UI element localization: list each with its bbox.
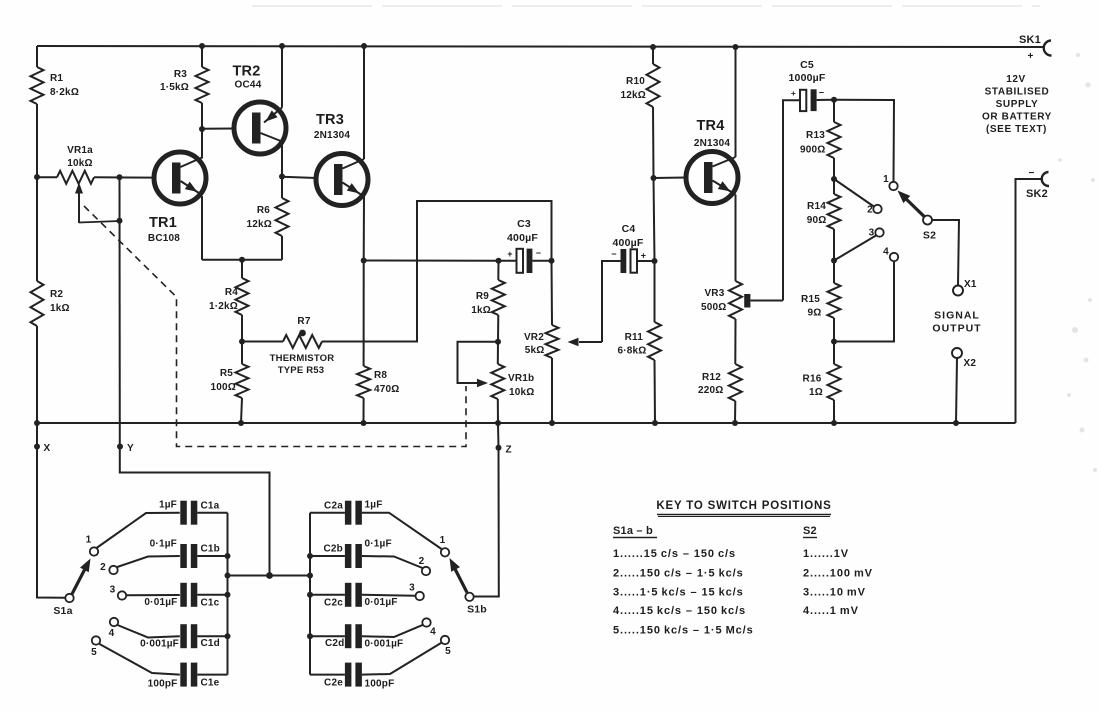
svg-text:900Ω: 900Ω [800, 145, 826, 156]
svg-text:8·2kΩ: 8·2kΩ [50, 87, 79, 98]
svg-text:10kΩ: 10kΩ [509, 387, 535, 398]
switch S2 contact 2 [873, 205, 881, 213]
wire [197, 512, 227, 514]
node junction [650, 44, 656, 50]
switch S1b contact 1 [441, 548, 449, 556]
wire [532, 260, 551, 262]
capacitor C2d [345, 624, 352, 648]
svg-text:OC44: OC44 [235, 80, 262, 91]
svg-text:SK2: SK2 [1026, 188, 1048, 200]
wire [817, 99, 834, 101]
svg-text:90Ω: 90Ω [807, 215, 827, 226]
wire [956, 358, 957, 423]
svg-text:C5: C5 [800, 59, 814, 71]
wire [281, 177, 283, 199]
svg-text:C1e: C1e [201, 678, 220, 689]
node junction [239, 257, 245, 263]
switch S1b contact 5 [441, 636, 449, 644]
socket SK1 [1044, 41, 1052, 56]
svg-text:SIGNAL: SIGNAL [934, 310, 980, 322]
capacitor C1e [180, 663, 187, 687]
svg-text:C4: C4 [622, 223, 636, 235]
node junction [652, 258, 658, 264]
wire [363, 398, 365, 423]
svg-text:OR BATTERY: OR BATTERY [982, 112, 1052, 123]
node junction [34, 174, 40, 180]
svg-text:C1c: C1c [201, 598, 220, 609]
wire [1058, 53, 1097, 472]
svg-text:C2e: C2e [324, 678, 343, 689]
svg-text:R2: R2 [50, 289, 63, 300]
svg-text:R12: R12 [702, 372, 721, 383]
node junction [495, 339, 501, 345]
node X [34, 444, 40, 450]
svg-text:R10: R10 [626, 76, 645, 87]
svg-text:2: 2 [100, 562, 106, 573]
resistor R11 [648, 322, 661, 360]
wire [197, 674, 227, 676]
node 12V supply rail (top) [37, 46, 1044, 47]
svg-text:VR2: VR2 [524, 332, 544, 343]
svg-text:R5: R5 [220, 368, 233, 379]
svg-text:1......1V: 1......1V [803, 548, 849, 560]
capacitor C1b [180, 544, 187, 568]
wire [833, 100, 835, 122]
svg-text:Y: Y [127, 443, 134, 454]
wire [362, 513, 442, 549]
capacitor C2b [345, 544, 352, 568]
wire [833, 318, 835, 342]
wire [36, 46, 38, 67]
wire [281, 236, 283, 260]
resistor R15 [828, 283, 841, 318]
svg-text:500Ω: 500Ω [701, 302, 727, 313]
wire [497, 423, 500, 448]
wire [309, 513, 311, 675]
svg-text:STABILISED: STABILISED [985, 87, 1050, 98]
wire [281, 142, 283, 177]
svg-text:R1: R1 [50, 73, 63, 84]
switch S1b contact 3 [416, 592, 424, 600]
node junction [496, 258, 502, 264]
switch S1a contact 1 [90, 547, 98, 555]
svg-text:3: 3 [409, 583, 415, 594]
wire [241, 342, 243, 365]
svg-text:S1a – b: S1a – b [613, 525, 653, 537]
wire [654, 261, 656, 322]
node junction [199, 43, 205, 49]
wire [201, 103, 203, 129]
wire [322, 201, 552, 342]
svg-text:100Ω: 100Ω [210, 382, 236, 393]
node junction [831, 97, 837, 103]
svg-text:400µF: 400µF [507, 232, 538, 244]
resistor R5 [236, 364, 249, 398]
potentiometer VR3 [729, 281, 742, 319]
terminal X2 [952, 348, 962, 358]
wire [242, 341, 283, 343]
wire [652, 107, 655, 178]
svg-text:1000µF: 1000µF [788, 72, 825, 84]
wire [120, 447, 270, 576]
svg-text:2N1304: 2N1304 [694, 138, 730, 149]
svg-text:1: 1 [883, 174, 889, 185]
wire [37, 447, 65, 598]
svg-text:4: 4 [883, 247, 889, 258]
resistor R1 [31, 67, 44, 104]
node junction [239, 339, 245, 345]
resistor R8 [357, 366, 370, 398]
svg-text:TYPE R53: TYPE R53 [278, 365, 324, 376]
potentiometer VR1a [57, 171, 94, 184]
potentiometer VR2 [546, 325, 559, 358]
wire [282, 177, 317, 178]
svg-text:R11: R11 [625, 332, 644, 343]
switch S1a contact 4 [110, 618, 118, 626]
svg-text:KEY TO SWITCH POSITIONS: KEY TO SWITCH POSITIONS [656, 500, 831, 512]
wire [735, 47, 737, 157]
svg-text:SK1: SK1 [1019, 34, 1041, 46]
wire [834, 179, 874, 207]
svg-text:2.....100 mV: 2.....100 mV [803, 568, 873, 580]
wire [252, 5, 1040, 7]
wire [363, 197, 365, 261]
svg-text:R6: R6 [257, 205, 270, 216]
svg-text:X1: X1 [964, 279, 977, 290]
svg-text:C2d: C2d [325, 638, 345, 649]
svg-text:0·1µF: 0·1µF [365, 539, 392, 550]
wire [735, 195, 737, 282]
wire [474, 448, 499, 597]
wire [201, 196, 203, 260]
node junction [831, 258, 837, 264]
capacitor C5 [800, 90, 806, 111]
svg-text:VR1a: VR1a [67, 145, 93, 156]
svg-text:C2a: C2a [324, 501, 343, 512]
svg-text:4: 4 [430, 627, 436, 638]
wire [310, 635, 345, 637]
wire [497, 261, 499, 280]
switch S2 pole [923, 216, 932, 225]
wire [37, 176, 57, 178]
wire [834, 261, 894, 341]
svg-text:R13: R13 [806, 130, 825, 141]
wire [499, 260, 517, 262]
node junction [361, 43, 367, 49]
switch S1b contact 4 [422, 618, 430, 626]
transistor TR2 [234, 102, 286, 154]
node junction [238, 420, 244, 426]
svg-text:VR1b: VR1b [508, 373, 534, 384]
capacitor C2a [345, 501, 352, 525]
svg-text:+: + [507, 249, 512, 259]
svg-text:3.....1·5 kc/s – 15 kc/s: 3.....1·5 kc/s – 15 kc/s [613, 587, 744, 599]
node Z [496, 445, 502, 451]
svg-text:S1b: S1b [467, 604, 487, 616]
resistor R4 [236, 278, 249, 315]
wire [1016, 179, 1043, 423]
svg-text:4.....15 kc/s – 150 kc/s: 4.....15 kc/s – 150 kc/s [613, 605, 746, 617]
svg-text:6·8kΩ: 6·8kΩ [617, 346, 646, 357]
transistor TR1 [154, 152, 206, 204]
node junction [733, 44, 739, 50]
svg-text:1......15 c/s – 150 c/s: 1......15 c/s – 150 c/s [613, 548, 736, 560]
svg-text:2.....150 c/s – 1·5 kc/s: 2.....150 c/s – 1·5 kc/s [613, 568, 744, 580]
wire [202, 259, 282, 261]
svg-text:4: 4 [109, 628, 115, 639]
switch S1a contact 2 [109, 566, 117, 574]
svg-text:12kΩ: 12kΩ [620, 90, 646, 101]
switch S2 contact 1 [889, 182, 897, 190]
svg-text:4.....1 mV: 4.....1 mV [803, 605, 859, 617]
wire [783, 100, 800, 300]
wire [241, 260, 243, 278]
wire [119, 177, 121, 446]
node junction [307, 553, 313, 559]
svg-text:X: X [44, 443, 51, 454]
capacitor C2e [345, 663, 352, 687]
svg-text:SUPPLY: SUPPLY [996, 99, 1039, 110]
svg-text:2: 2 [419, 556, 425, 567]
node junction [225, 553, 231, 559]
svg-text:C2b: C2b [324, 544, 344, 555]
wire [551, 358, 553, 423]
wire [834, 100, 894, 182]
socket SK2 [1042, 172, 1049, 186]
svg-text:(SEE TEXT): (SEE TEXT) [986, 124, 1047, 135]
thermistor R7 [283, 335, 322, 348]
resistor R14 [828, 194, 841, 229]
wire [363, 46, 365, 159]
svg-text:470Ω: 470Ω [374, 384, 400, 395]
node junction [831, 420, 837, 426]
svg-text:3: 3 [110, 585, 116, 596]
svg-text:5: 5 [91, 647, 97, 658]
svg-text:0·001µF: 0·001µF [365, 639, 404, 650]
svg-text:R8: R8 [374, 370, 387, 381]
resistor R16 [828, 364, 841, 400]
wire [100, 644, 180, 675]
wire [734, 319, 736, 364]
switch S1b pole [465, 593, 473, 601]
wire [654, 177, 687, 180]
wire [362, 625, 423, 637]
node junction [953, 420, 959, 426]
switch S2 contact 3 [875, 228, 883, 236]
svg-text:0·01µF: 0·01µF [365, 597, 398, 608]
wire [833, 342, 835, 365]
svg-text:S2: S2 [923, 230, 936, 242]
switch S1a contact 5 [92, 636, 100, 644]
resistor R2 [31, 281, 44, 326]
wire [36, 104, 38, 177]
transistor TR3 [316, 154, 368, 206]
node junction [117, 174, 123, 180]
wire [118, 625, 180, 638]
svg-text:THERMISTOR: THERMISTOR [270, 353, 335, 364]
svg-text:12kΩ: 12kΩ [246, 219, 272, 230]
svg-text:−: − [819, 88, 824, 98]
wire [36, 326, 38, 423]
resistor R13 [828, 122, 841, 158]
wire [637, 260, 655, 262]
wire [197, 594, 227, 596]
wire [363, 261, 365, 367]
wire [310, 674, 345, 676]
svg-text:−: − [1028, 168, 1034, 179]
node junction [34, 420, 40, 426]
potentiometer VR1b [491, 364, 504, 399]
node junction [652, 420, 658, 426]
node junction [732, 420, 738, 426]
wire [228, 575, 311, 577]
wire [241, 398, 242, 423]
capacitor C1a [180, 501, 187, 525]
wire [834, 236, 876, 261]
svg-text:+: + [1027, 51, 1033, 62]
svg-text:VR3: VR3 [704, 288, 724, 299]
wire [36, 177, 38, 281]
wire mechanical link (dashed) [84, 206, 466, 447]
capacitor C2c [345, 583, 352, 607]
wire [652, 47, 654, 64]
node junction [651, 175, 657, 181]
wire [654, 360, 657, 423]
svg-text:R9: R9 [476, 291, 489, 302]
switch S1b contact 2 [422, 567, 430, 575]
wire [310, 512, 345, 514]
wire [97, 513, 180, 548]
node junction [279, 174, 285, 180]
svg-text:R16: R16 [803, 374, 822, 385]
wire [734, 401, 736, 423]
svg-text:3.....10 mV: 3.....10 mV [803, 587, 866, 599]
svg-text:1·5kΩ: 1·5kΩ [160, 82, 189, 93]
svg-text:S2: S2 [803, 525, 817, 537]
resistor R3 [196, 67, 209, 103]
svg-text:9Ω: 9Ω [808, 308, 822, 319]
resistor R12 [729, 364, 742, 401]
node junction [831, 176, 837, 182]
capacitor C4 [621, 249, 627, 273]
node junction [549, 420, 555, 426]
resistor R9 [492, 280, 505, 315]
wire [202, 128, 235, 130]
transistor TR4 [686, 152, 738, 204]
wire [310, 594, 345, 596]
wire [241, 315, 243, 342]
wire [281, 46, 283, 108]
svg-text:TR3: TR3 [316, 112, 344, 128]
node junction [361, 258, 367, 264]
svg-text:1kΩ: 1kΩ [50, 303, 70, 314]
svg-text:1: 1 [86, 535, 92, 546]
switch S1a pole [65, 594, 73, 602]
node Y [117, 444, 123, 450]
wire [654, 178, 655, 261]
svg-text:12V: 12V [1006, 74, 1026, 85]
wire [201, 46, 203, 67]
wire [497, 315, 499, 342]
wire [94, 176, 154, 178]
svg-text:R7: R7 [297, 316, 310, 327]
wire [833, 261, 835, 284]
switch S2 contact 4 [890, 253, 898, 261]
wire [197, 555, 227, 557]
resistor R10 [647, 64, 660, 107]
capacitor C1d [180, 624, 187, 648]
svg-text:1: 1 [440, 535, 446, 546]
svg-text:BC108: BC108 [148, 233, 180, 244]
node junction [549, 258, 555, 264]
resistor R6 [276, 198, 289, 236]
svg-text:0·001µF: 0·001µF [140, 639, 179, 650]
svg-text:5: 5 [445, 646, 451, 657]
wire [197, 635, 227, 637]
wire [117, 556, 180, 567]
wire [362, 643, 442, 675]
wire [932, 220, 959, 285]
svg-text:+: + [641, 251, 646, 261]
svg-text:1µF: 1µF [365, 500, 383, 511]
node junction [279, 43, 285, 49]
wire [362, 595, 416, 596]
svg-text:−: − [611, 249, 616, 259]
node junction [199, 126, 205, 132]
wire [362, 556, 423, 568]
node junction [361, 420, 367, 426]
svg-text:0·01µF: 0·01µF [144, 597, 177, 608]
wire [833, 179, 835, 194]
wire [364, 260, 499, 262]
svg-text:X2: X2 [964, 358, 977, 369]
capacitor C3 [517, 249, 524, 273]
wire [602, 261, 621, 342]
wire [126, 594, 180, 596]
svg-text:R3: R3 [174, 69, 187, 80]
wire [833, 400, 835, 423]
wire [551, 261, 554, 325]
svg-text:TR2: TR2 [233, 64, 261, 80]
svg-text:5kΩ: 5kΩ [525, 345, 545, 356]
svg-text:−: − [536, 248, 541, 258]
wire [310, 555, 345, 557]
node 0V rail (bottom) [37, 422, 1016, 424]
svg-text:100pF: 100pF [365, 679, 395, 690]
svg-text:2N1304: 2N1304 [314, 130, 350, 141]
svg-text:R4: R4 [225, 287, 238, 298]
svg-text:C1d: C1d [201, 638, 221, 649]
svg-text:OUTPUT: OUTPUT [932, 323, 981, 335]
wire [833, 158, 835, 179]
node junction [266, 572, 273, 579]
capacitor C1c [180, 583, 187, 607]
svg-text:TR1: TR1 [149, 215, 177, 231]
svg-text:1·2kΩ: 1·2kΩ [209, 301, 238, 312]
wire [227, 513, 229, 675]
wire [497, 342, 499, 364]
svg-text:R15: R15 [801, 294, 820, 305]
svg-text:220Ω: 220Ω [698, 385, 724, 396]
svg-text:1kΩ: 1kΩ [471, 305, 491, 316]
svg-text:5.....150 kc/s – 1·5 Mc/s: 5.....150 kc/s – 1·5 Mc/s [613, 625, 754, 637]
svg-text:1µF: 1µF [159, 500, 177, 511]
svg-text:Z: Z [506, 445, 512, 456]
svg-text:400µF: 400µF [613, 237, 644, 249]
switch S1a contact 3 [118, 591, 126, 599]
svg-text:1Ω: 1Ω [809, 387, 823, 398]
svg-text:10kΩ: 10kΩ [67, 158, 93, 169]
